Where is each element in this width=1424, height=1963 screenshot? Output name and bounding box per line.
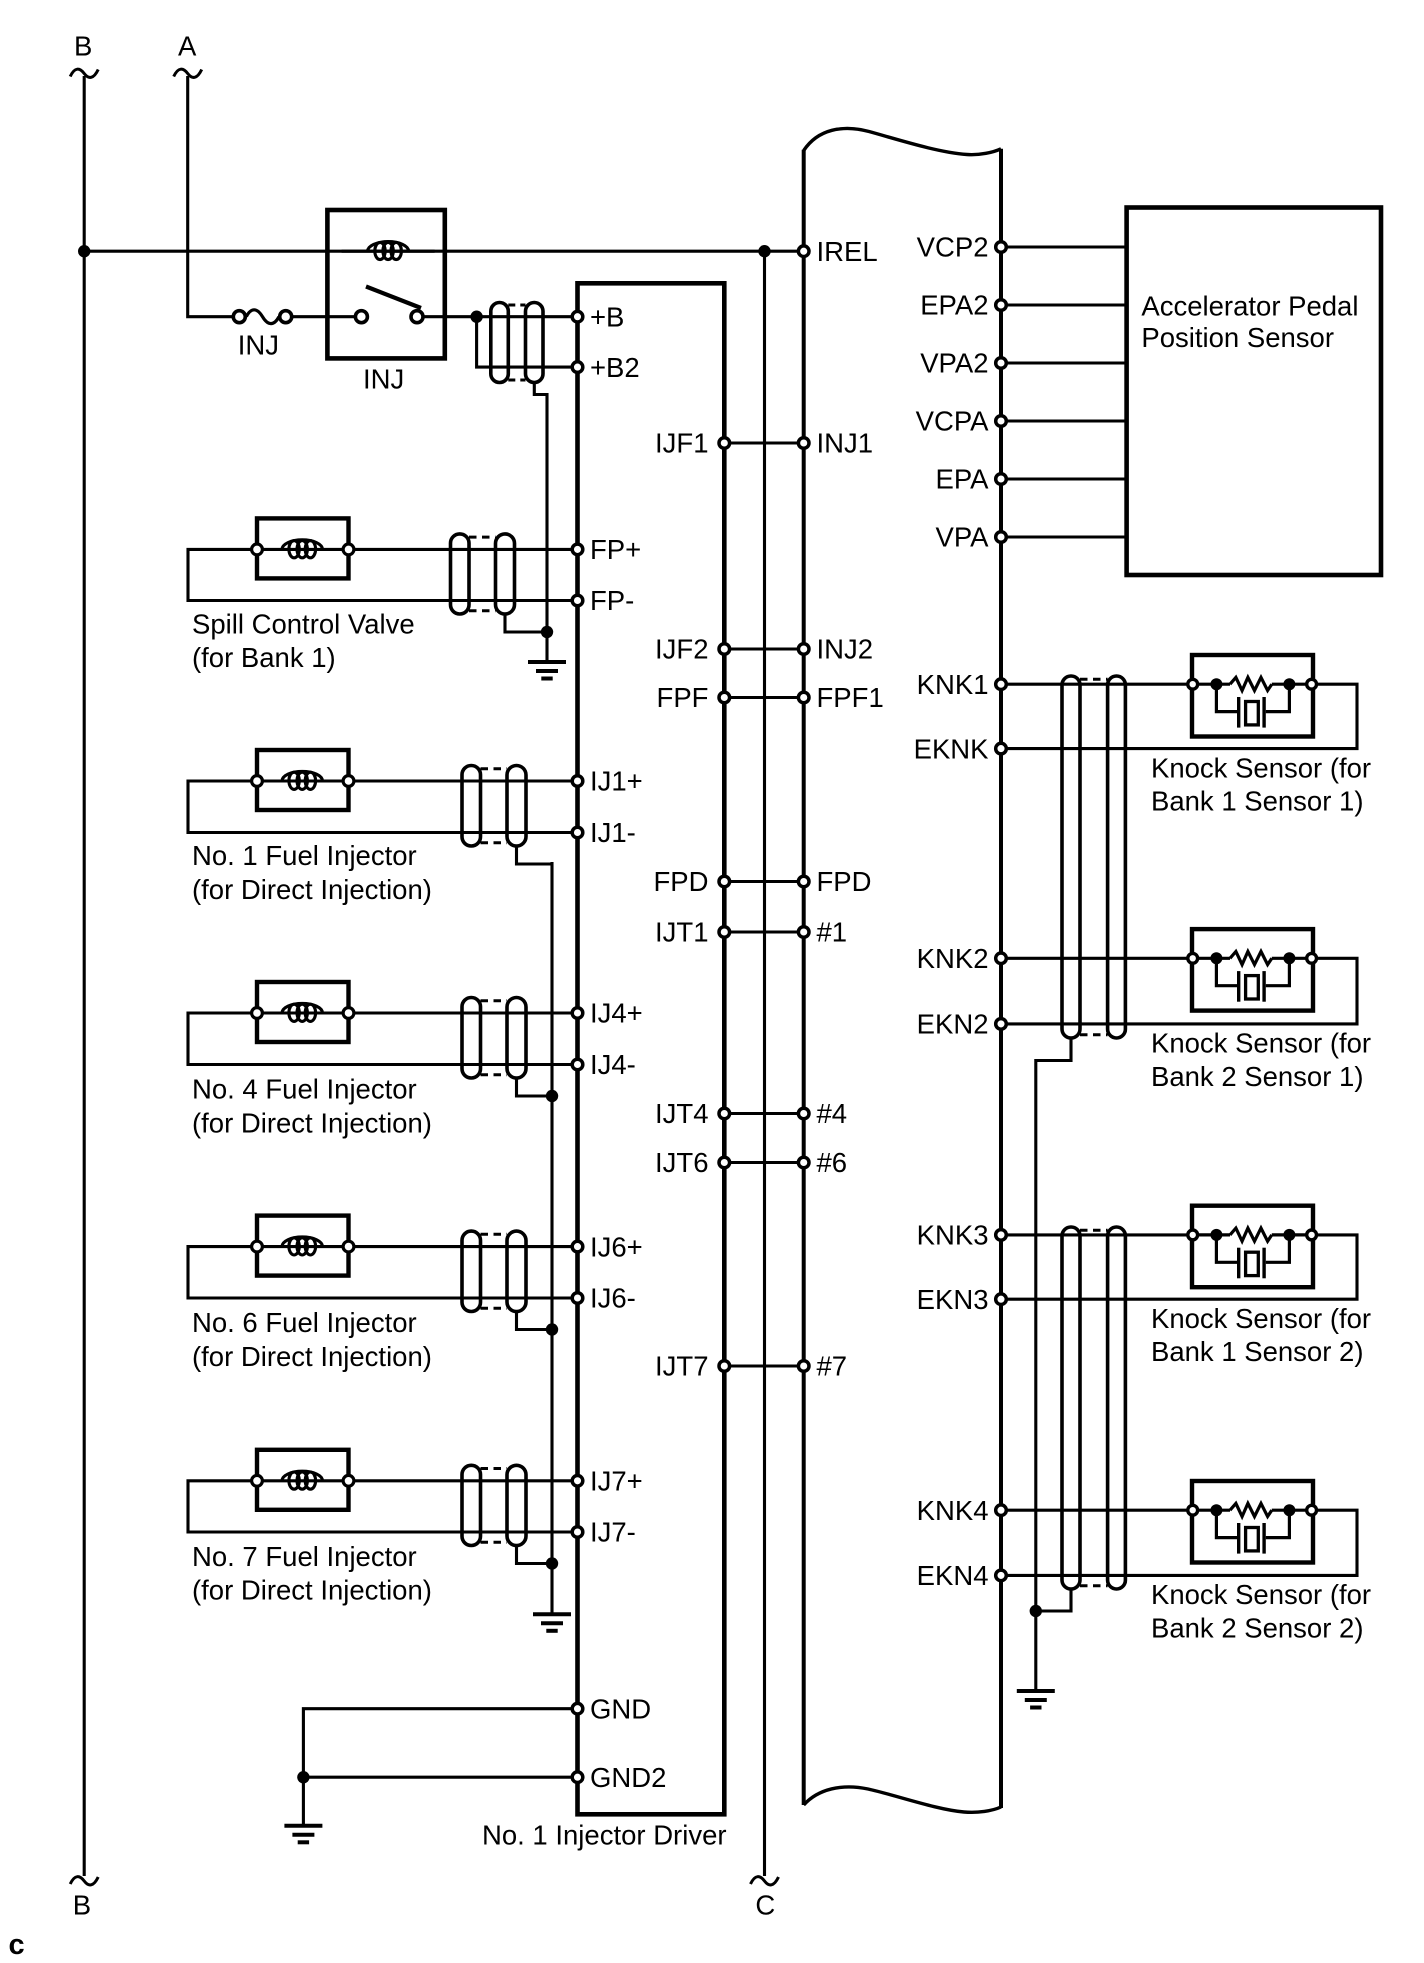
svg-text:Knock Sensor (for: Knock Sensor (for	[1151, 1028, 1371, 1059]
terminal KNK1 (ECM)	[996, 679, 1007, 690]
wire +B2	[477, 317, 573, 367]
svg-text:Position Sensor: Position Sensor	[1141, 322, 1334, 353]
ground (injector shields)	[533, 1612, 571, 1616]
svg-text:C: C	[755, 1889, 775, 1920]
wire EKN4 return	[1001, 1510, 1357, 1575]
knock sensor 4 piezo element	[1216, 1510, 1238, 1537]
knock sensor box 1	[1192, 655, 1313, 737]
terminal KNK3 (ECM)	[996, 1230, 1007, 1241]
svg-text:+B2: +B2	[590, 352, 640, 383]
svg-text:Bank 1 Sensor 2): Bank 1 Sensor 2)	[1151, 1336, 1363, 1367]
junction relay output / +B2 tap	[470, 311, 482, 323]
junction B rail / main feed	[78, 245, 90, 257]
svg-text:VPA: VPA	[936, 522, 990, 553]
svg-text:EKNK: EKNK	[914, 733, 990, 764]
terminal knock sensor 1 +	[1188, 679, 1198, 689]
svg-text:Knock Sensor (for: Knock Sensor (for	[1151, 752, 1371, 783]
fuse INJ	[246, 310, 279, 324]
shielded twisted pair (IJ7)	[481, 1467, 508, 1470]
knock sensor 4 internal resistor	[1193, 1509, 1230, 1512]
svg-text:B: B	[74, 31, 92, 62]
ECM left edge	[802, 150, 806, 1805]
svg-text:Spill Control Valve: Spill Control Valve	[192, 609, 415, 640]
wire GND	[303, 1709, 572, 1778]
svg-text:(for Bank 1): (for Bank 1)	[192, 642, 336, 673]
wire IJF2 to INJ2	[724, 647, 803, 650]
junction GND/GND2	[297, 1771, 309, 1783]
wire B vertical rail	[83, 76, 86, 1876]
svg-text:Knock Sensor (for: Knock Sensor (for	[1151, 1579, 1371, 1610]
wire EPA to accelerator pedal position sensor	[1001, 477, 1127, 480]
wire FP - lead	[188, 549, 572, 600]
junction resistor/piezo right	[1283, 678, 1295, 690]
wire spill shield drain to ground	[545, 631, 548, 662]
svg-text:INJ: INJ	[363, 363, 404, 394]
terminal IJ6+ (driver)	[572, 1241, 583, 1252]
wire shield drain (FP)	[505, 614, 547, 632]
terminal FP- (driver)	[572, 595, 583, 606]
svg-text:(for Direct Injection): (for Direct Injection)	[192, 1341, 432, 1372]
knock sensor box 4	[1192, 1481, 1313, 1563]
terminal knock sensor 3 +	[1188, 1230, 1198, 1240]
svg-text:IJT7: IJT7	[655, 1351, 708, 1382]
svg-text:IJ6-: IJ6-	[590, 1283, 636, 1314]
terminal IJ1- (driver)	[572, 827, 583, 838]
terminal EKN4 (ECM)	[996, 1570, 1007, 1581]
knock sensor 1 piezo element	[1216, 684, 1238, 711]
wire KNK4	[1001, 1509, 1192, 1512]
ground (driver GND)	[284, 1824, 322, 1828]
svg-text:A: A	[178, 31, 197, 62]
wire main +B feed (B rail to ECU IREL)	[84, 250, 804, 253]
svg-text:B: B	[73, 1889, 91, 1920]
svg-text:Accelerator Pedal: Accelerator Pedal	[1141, 291, 1358, 322]
terminal +B2 (driver)	[572, 362, 583, 373]
wire IJ4 + lead	[349, 1011, 573, 1014]
wire FP + lead	[349, 548, 573, 551]
wire shield drain (IJ6)	[517, 1312, 553, 1330]
wire EKN2 return	[1001, 958, 1357, 1024]
junction resistor/piezo left	[1210, 1504, 1222, 1516]
svg-text:VCPA: VCPA	[916, 406, 990, 437]
svg-text:No. 6 Fuel Injector: No. 6 Fuel Injector	[192, 1307, 417, 1338]
wire IJ1 - lead	[188, 781, 572, 833]
terminal IJ6- (driver)	[572, 1293, 583, 1304]
svg-text:FP+: FP+	[590, 534, 641, 565]
junction resistor/piezo right	[1283, 1504, 1295, 1516]
svg-text:IJ4-: IJ4-	[590, 1049, 636, 1080]
terminal IJ7- (driver)	[572, 1527, 583, 1538]
terminal FP+ (driver)	[572, 544, 583, 555]
ECM torn top edge	[804, 128, 1001, 154]
svg-text:KNK3: KNK3	[917, 1220, 989, 1251]
svg-text:No. 7 Fuel Injector: No. 7 Fuel Injector	[192, 1541, 417, 1572]
terminal knock sensor 4 -	[1307, 1505, 1317, 1515]
svg-text:GND2: GND2	[590, 1762, 666, 1793]
svg-text:VPA2: VPA2	[920, 348, 988, 379]
svg-text:FP-: FP-	[590, 585, 634, 616]
svg-text:(for Direct Injection): (for Direct Injection)	[192, 1575, 432, 1606]
svg-text:Bank 1 Sensor 1): Bank 1 Sensor 1)	[1151, 786, 1363, 817]
svg-text:EKN4: EKN4	[917, 1560, 989, 1591]
terminal EKN1 (ECM)	[996, 743, 1007, 754]
svg-text:KNK1: KNK1	[917, 669, 989, 700]
svg-text:IJ4+: IJ4+	[590, 998, 643, 1029]
svg-text:#4: #4	[817, 1098, 848, 1129]
terminal IJT7 (driver)	[719, 1361, 730, 1372]
svg-text:VCP2: VCP2	[917, 232, 989, 263]
terminal #6 (ECM)	[798, 1157, 809, 1168]
wire to chassis ground	[302, 1777, 305, 1826]
svg-text:IJ7+: IJ7+	[590, 1466, 643, 1497]
terminal GND2 (driver)	[572, 1772, 583, 1783]
ECM torn bottom edge	[804, 1787, 1001, 1812]
svg-text:No. 4 Fuel Injector: No. 4 Fuel Injector	[192, 1074, 417, 1105]
wire VPA to accelerator pedal position sensor	[1001, 535, 1127, 538]
wire IJT4 to #4	[724, 1112, 803, 1115]
wire A vertical drop	[188, 76, 233, 317]
wire IJ7 + lead	[349, 1479, 573, 1482]
wire VCP2 to accelerator pedal position sensor	[1001, 245, 1127, 248]
svg-text:FPD: FPD	[817, 866, 872, 897]
wire IJT7 to #7	[724, 1364, 803, 1367]
wire knock shield drain 2	[1036, 1589, 1071, 1611]
terminal #4 (ECM)	[798, 1108, 809, 1119]
knock sensor 2 piezo element	[1216, 958, 1238, 985]
shielded twisted pair (knock sensors)	[1080, 1229, 1108, 1232]
svg-text:IJF2: IJF2	[655, 634, 708, 665]
terminal INJ2 (ECM)	[798, 644, 809, 655]
svg-text:INJ: INJ	[238, 330, 279, 361]
terminal VCP2 (ECM)	[996, 242, 1007, 253]
wire FPF to FPF1	[724, 696, 803, 699]
terminal FPD (driver)	[719, 876, 730, 887]
svg-text:KNK4: KNK4	[917, 1495, 989, 1526]
No. 7 fuel injector (solenoid)	[257, 1450, 349, 1510]
terminal IJ4+ (driver)	[572, 1008, 583, 1019]
shielded twisted pair (FP)	[469, 536, 496, 539]
terminal FPF (driver)	[719, 692, 730, 703]
svg-text:Bank 2 Sensor 1): Bank 2 Sensor 1)	[1151, 1061, 1363, 1092]
No. 1 fuel injector (solenoid)	[257, 750, 349, 810]
wire IJ6 - lead	[188, 1247, 572, 1298]
relay INJ coil	[342, 250, 435, 253]
terminal EPA2 (ECM)	[996, 300, 1007, 311]
svg-text:IJF1: IJF1	[655, 428, 708, 459]
wire drain to ground	[1034, 1611, 1037, 1691]
terminal EKN2 (ECM)	[996, 1019, 1007, 1030]
ECM right edge	[999, 149, 1003, 1808]
svg-text:#7: #7	[817, 1351, 848, 1382]
terminal KNK4 (ECM)	[996, 1505, 1007, 1516]
terminal IJT4 (driver)	[719, 1108, 730, 1119]
wire shield drain (IJ4)	[517, 1078, 553, 1096]
junction resistor/piezo right	[1283, 952, 1295, 964]
terminal IREL (ECM)	[798, 246, 809, 257]
ground (knock sensor shield)	[1017, 1689, 1055, 1693]
terminal knock sensor 4 +	[1188, 1505, 1198, 1515]
terminal VCPA (ECM)	[996, 416, 1007, 427]
terminal IJ7+ (driver)	[572, 1476, 583, 1487]
svg-text:EPA2: EPA2	[920, 290, 988, 321]
wire FPD to FPD	[724, 880, 803, 883]
node C (bottom break)	[751, 1877, 779, 1885]
junction knock shield drains	[1030, 1605, 1042, 1617]
wire knock shield drain 1	[1036, 1038, 1071, 1611]
terminal EKN3 (ECM)	[996, 1294, 1007, 1305]
svg-text:IJ7-: IJ7-	[590, 1517, 636, 1548]
wire IJT1 to #1	[724, 930, 803, 933]
svg-text:#1: #1	[817, 917, 848, 948]
junction shield drain (FP)	[541, 626, 553, 638]
wire C vertical rail	[763, 251, 766, 1876]
terminal VPA (ECM)	[996, 532, 1007, 543]
terminal IJF2 (driver)	[719, 644, 730, 655]
wire IJ7 - lead	[188, 1481, 572, 1532]
terminal IJ4- (driver)	[572, 1059, 583, 1070]
knock sensor 2 internal resistor	[1193, 957, 1230, 960]
svg-text:FPD: FPD	[654, 866, 709, 897]
terminal #1 (ECM)	[798, 927, 809, 938]
wire IJ4 - lead	[188, 1013, 572, 1065]
junction resistor/piezo left	[1210, 952, 1222, 964]
terminal knock sensor 2 -	[1307, 953, 1317, 963]
wire GND2	[303, 1776, 572, 1779]
svg-text:Bank 2 Sensor 2): Bank 2 Sensor 2)	[1151, 1612, 1363, 1643]
junction resistor/piezo left	[1210, 1229, 1222, 1241]
wire EKN3 return	[1001, 1235, 1357, 1299]
relay INJ box	[327, 210, 444, 358]
terminal GND (driver)	[572, 1703, 583, 1714]
terminal knock sensor 1 -	[1307, 679, 1317, 689]
shielded twisted pair (IJ1)	[481, 767, 508, 770]
junction resistor/piezo right	[1283, 1229, 1295, 1241]
wire IJF1 to INJ1	[724, 441, 803, 444]
No. 6 fuel injector (solenoid)	[257, 1216, 349, 1276]
svg-text:(for Direct Injection): (for Direct Injection)	[192, 1107, 432, 1138]
svg-text:EKN3: EKN3	[917, 1284, 989, 1315]
svg-text:(for Direct Injection): (for Direct Injection)	[192, 874, 432, 905]
junction shield drain (IJ6)	[546, 1323, 558, 1335]
shielded twisted pair (knock sensors)	[1080, 678, 1108, 681]
terminal FPF1 (ECM)	[798, 692, 809, 703]
knock sensor box 3	[1192, 1206, 1313, 1288]
svg-text:GND: GND	[590, 1693, 651, 1724]
wire EKN1 return	[1001, 684, 1357, 748]
terminal knock sensor 3 -	[1307, 1230, 1317, 1240]
wire shield drain (+B2)	[534, 381, 547, 631]
terminal +B (driver)	[572, 311, 583, 322]
No. 4 fuel injector (solenoid)	[257, 982, 349, 1042]
terminal knock sensor 2 +	[1188, 953, 1198, 963]
shielded twisted pair (IJ6)	[481, 1233, 508, 1236]
wire KNK3	[1001, 1233, 1192, 1236]
terminal IJF1 (driver)	[719, 438, 730, 449]
junction main feed / C rail	[758, 245, 770, 257]
terminal IJT1 (driver)	[719, 927, 730, 938]
wire shield drain (IJ1)	[517, 846, 553, 864]
terminal KNK2 (ECM)	[996, 953, 1007, 964]
wire injector shield drain rail	[550, 862, 553, 1564]
wire IJ6 + lead	[349, 1245, 573, 1248]
spill control valve (solenoid)	[257, 518, 349, 578]
knock sensor box 2	[1192, 929, 1313, 1011]
svg-text:FPF1: FPF1	[817, 682, 884, 713]
terminal IJT6 (driver)	[719, 1157, 730, 1168]
svg-text:IJT4: IJT4	[655, 1098, 708, 1129]
svg-text:IJT6: IJT6	[655, 1147, 708, 1178]
svg-text:IREL: IREL	[817, 236, 878, 267]
svg-text:IJT1: IJT1	[655, 917, 708, 948]
wire EPA2 to accelerator pedal position sensor	[1001, 303, 1127, 306]
svg-text:FPF: FPF	[657, 682, 709, 713]
node B (top break)	[70, 69, 98, 77]
terminal INJ1 (ECM)	[798, 438, 809, 449]
junction shield drain (IJ4)	[546, 1090, 558, 1102]
node A (top break)	[174, 69, 202, 77]
svg-text:EPA: EPA	[936, 464, 990, 495]
svg-text:No. 1 Injector Driver: No. 1 Injector Driver	[482, 1820, 727, 1851]
svg-text:Knock Sensor (for: Knock Sensor (for	[1151, 1303, 1371, 1334]
svg-text:KNK2: KNK2	[917, 943, 989, 974]
wire injector drain to ground	[550, 1564, 553, 1615]
wire VCPA to accelerator pedal position sensor	[1001, 419, 1127, 422]
junction shield drain (IJ7)	[546, 1557, 558, 1569]
wire KNK2	[1001, 957, 1192, 960]
wire shield drain (IJ7)	[517, 1546, 553, 1564]
terminal IJ1+ (driver)	[572, 776, 583, 787]
svg-text:INJ1: INJ1	[817, 428, 874, 459]
node B (bottom break)	[70, 1877, 98, 1885]
knock sensor 3 internal resistor	[1193, 1233, 1230, 1236]
junction resistor/piezo left	[1210, 678, 1222, 690]
terminal VPA2 (ECM)	[996, 358, 1007, 369]
svg-text:IJ1+: IJ1+	[590, 766, 643, 797]
wire +B	[477, 315, 573, 318]
shielded twisted pair (+B/+B2)	[508, 304, 525, 307]
svg-text:IJ6+: IJ6+	[590, 1231, 643, 1262]
terminal FPD (ECM)	[798, 876, 809, 887]
shielded twisted pair (IJ4)	[481, 999, 508, 1002]
svg-text:No. 1 Fuel Injector: No. 1 Fuel Injector	[192, 840, 417, 871]
wire IJ1 + lead	[349, 779, 573, 782]
svg-text:INJ2: INJ2	[817, 634, 874, 665]
ECU box No. 1 Injector Driver	[578, 283, 725, 1814]
knock sensor 1 internal resistor	[1193, 683, 1230, 686]
wire KNK1	[1001, 683, 1192, 686]
svg-text:IJ1-: IJ1-	[590, 817, 636, 848]
wire VPA2 to accelerator pedal position sensor	[1001, 361, 1127, 364]
svg-text:+B: +B	[590, 301, 624, 332]
svg-text:#6: #6	[817, 1147, 848, 1178]
svg-text:EKN2: EKN2	[917, 1009, 989, 1040]
wire IJT6 to #6	[724, 1161, 803, 1164]
terminal EPA (ECM)	[996, 474, 1007, 485]
accelerator pedal position sensor box	[1127, 208, 1381, 576]
ground (spill control valve shield)	[528, 660, 566, 664]
knock sensor 3 piezo element	[1216, 1235, 1238, 1262]
svg-text:c: c	[9, 1929, 25, 1961]
terminal #7 (ECM)	[798, 1361, 809, 1372]
relay INJ switch	[366, 287, 421, 309]
